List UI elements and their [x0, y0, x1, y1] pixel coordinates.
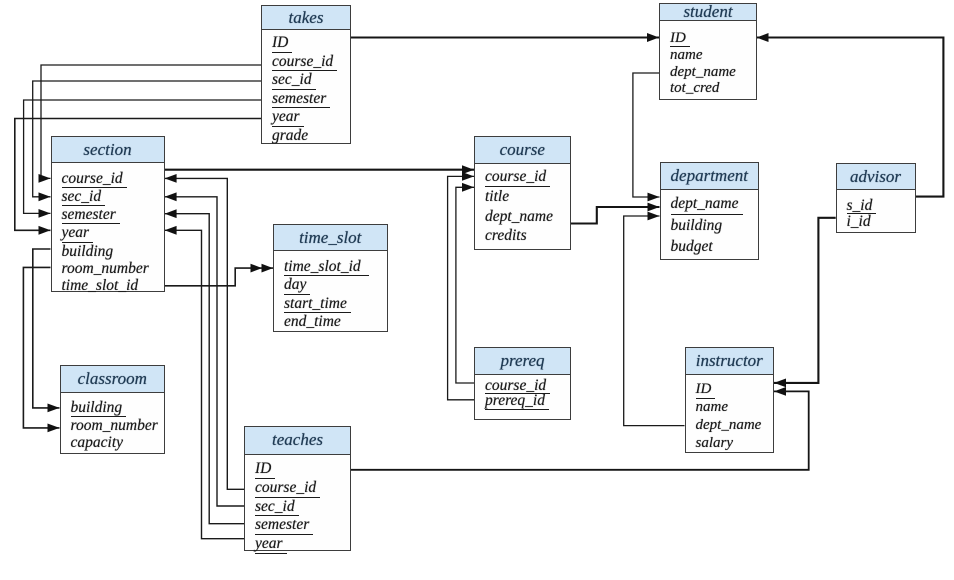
- wire prereq.course_id -> course.course_id: [456, 183, 474, 383]
- table student: [659, 3, 757, 100]
- table takes: [261, 5, 351, 144]
- table advisor: [836, 163, 916, 234]
- wire section.room_number -> classroom.room_number: [23, 267, 59, 432]
- table classroom: [60, 365, 166, 454]
- table department: [660, 162, 760, 260]
- wire teaches.sec_id -> section.sec_id: [165, 192, 245, 506]
- wire takes.semester -> section.semester: [24, 100, 261, 218]
- wire course.dept_name -> department.dept_name: [570, 203, 659, 224]
- wire section.time_slot_id -> time_slot.time_slot_id (double arrowhead): [165, 264, 273, 286]
- wire advisor.i_id -> instructor.ID: [774, 218, 836, 387]
- wire prereq.prereq_id -> course.course_id: [448, 172, 474, 400]
- table prereq: [474, 347, 571, 420]
- wire advisor.s_id -> student.ID: [757, 33, 944, 197]
- table teaches: [244, 426, 351, 551]
- wire teaches.ID -> instructor.ID: [351, 387, 809, 470]
- wire instructor.dept_name -> department.dept_name: [624, 212, 685, 426]
- wire teaches.semester -> section.semester: [165, 209, 245, 523]
- wire student.dept_name -> department.dept_name: [633, 73, 660, 201]
- wire takes.course_id -> section.course_id: [39, 65, 262, 183]
- wire takes.year -> section.year: [15, 119, 261, 235]
- table instructor: [685, 347, 775, 453]
- table section: [51, 136, 165, 292]
- wire teaches.year -> section.year: [165, 226, 245, 539]
- wire section.course_id -> course.course_id: [165, 165, 474, 174]
- wire takes.sec_id -> section.sec_id: [33, 81, 261, 201]
- wire teaches.course_id -> section.course_id: [165, 174, 245, 489]
- table time_slot: [273, 224, 388, 332]
- table course: [474, 136, 571, 250]
- wire section.building -> classroom.building: [33, 249, 60, 412]
- wire takes.ID -> student.ID: [351, 33, 659, 42]
